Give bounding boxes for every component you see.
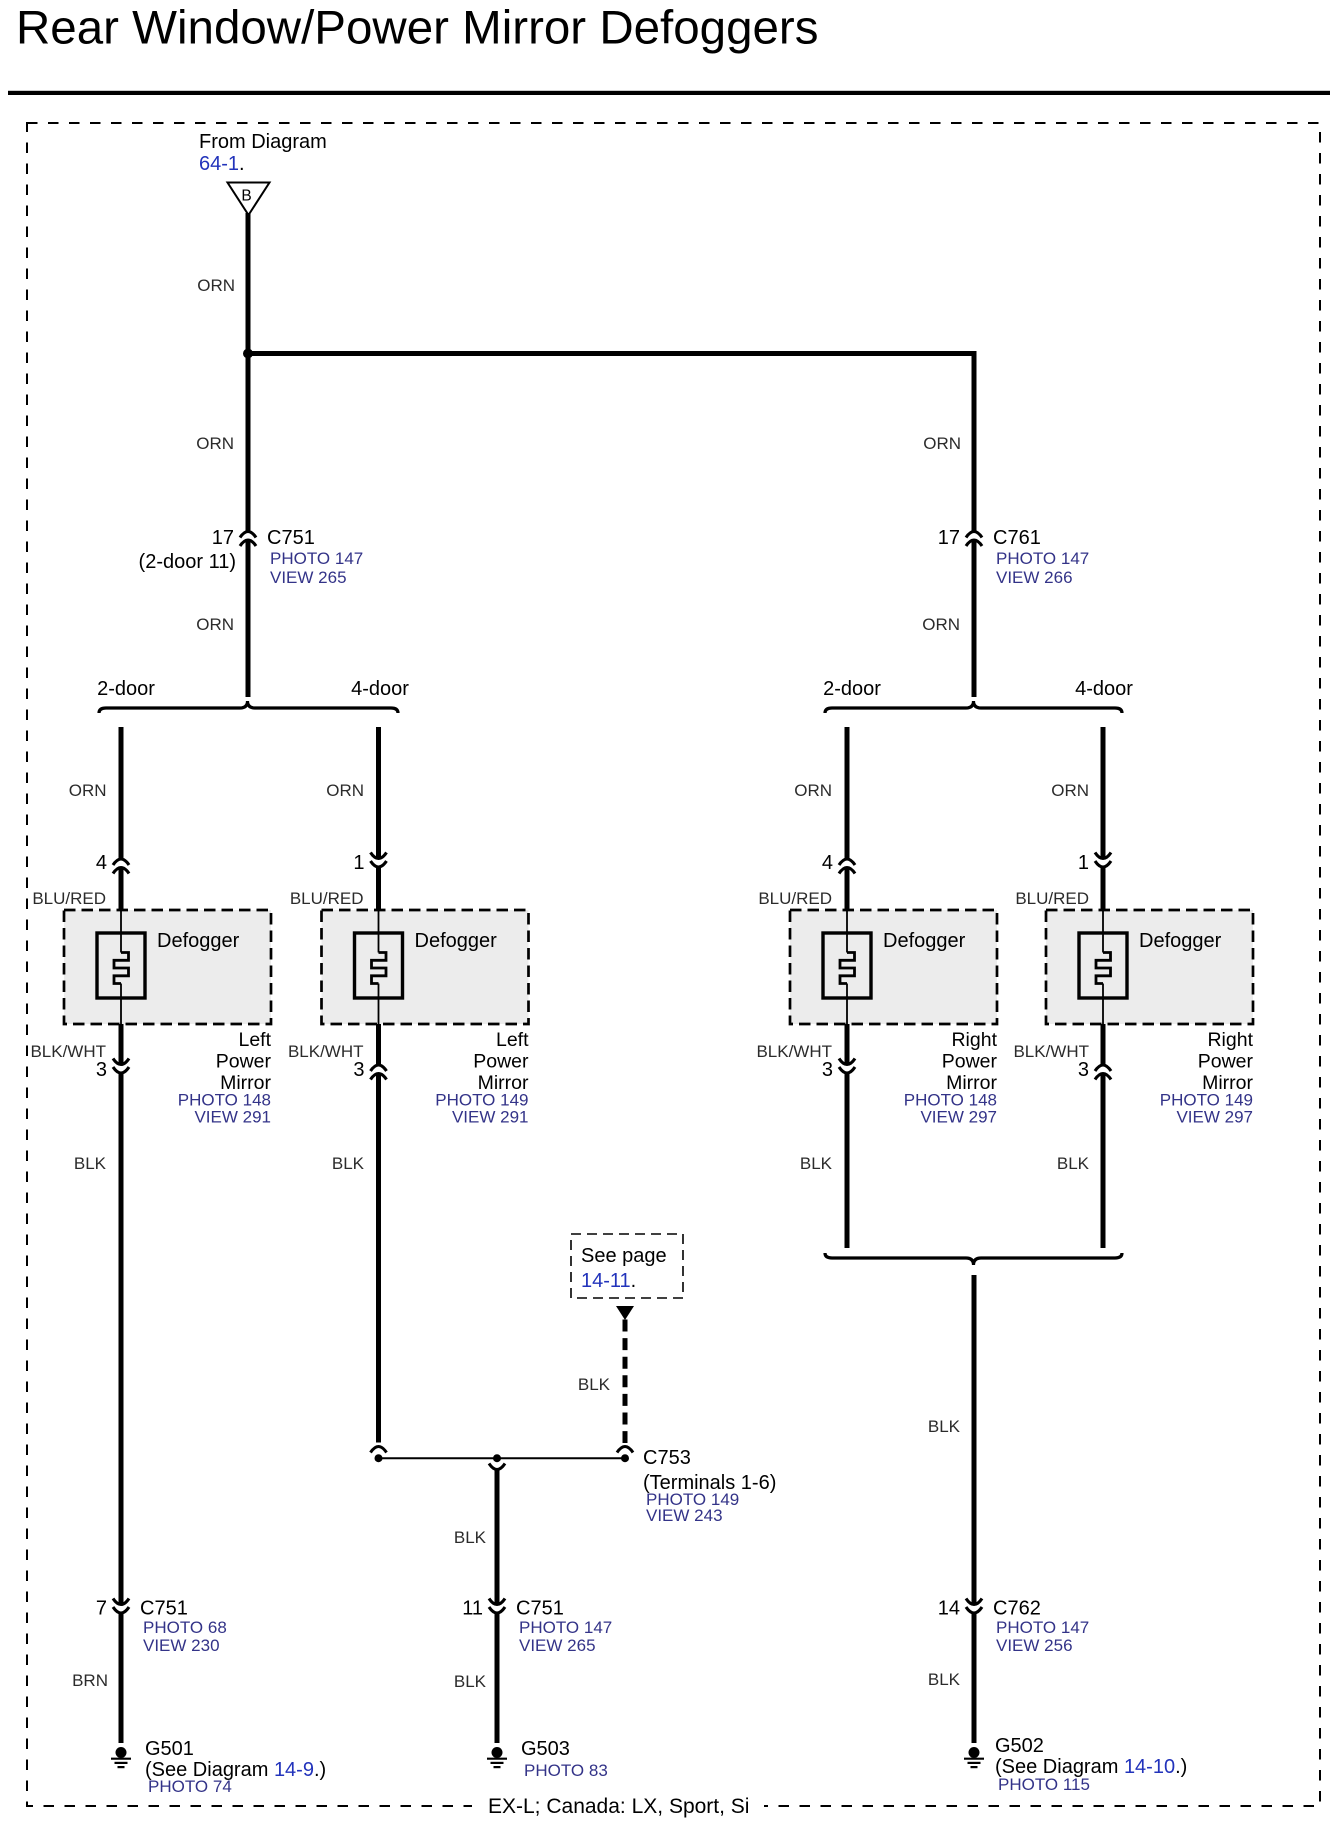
svg-text:BLK: BLK (928, 1670, 961, 1689)
svg-text:ORN: ORN (196, 434, 234, 453)
title rule (8, 91, 1330, 95)
component label Right power mirror (1198, 1029, 1254, 1094)
node junction dot (243, 349, 253, 359)
svg-text:64-1.: 64-1. (199, 153, 245, 175)
off-page connector triangle B (228, 183, 270, 216)
svg-text:G502: G502 (995, 1735, 1044, 1757)
resistor heater element box (left 2-door) (97, 933, 145, 998)
connector pin 1 symbol (left 4-door) (371, 853, 387, 868)
wire ORN horizontal to right stem (248, 354, 974, 532)
connector pin 4 symbol (left 2-door) (113, 859, 129, 874)
svg-text:PHOTO 83: PHOTO 83 (524, 1761, 608, 1780)
connector C751 pin 17 symbol (240, 532, 256, 547)
svg-text:Defogger: Defogger (415, 930, 498, 952)
wire BLK right stem below brace (972, 1275, 977, 1605)
svg-text:14: 14 (938, 1598, 960, 1620)
svg-text:VIEW 265: VIEW 265 (519, 1636, 596, 1655)
svg-text:PHOTO 115: PHOTO 115 (998, 1775, 1090, 1794)
svg-text:See page: See page (581, 1245, 667, 1267)
svg-text:1: 1 (1078, 852, 1089, 874)
wire BLK middle stem (495, 1470, 500, 1605)
svg-text:G501: G501 (145, 1738, 194, 1760)
svg-text:From Diagram: From Diagram (199, 131, 327, 153)
svg-text:3: 3 (96, 1059, 107, 1081)
connector pin 3 symbol (right 2-door) (839, 1059, 855, 1074)
connector C751 pin 7 symbol (113, 1599, 129, 1614)
svg-text:VIEW 291: VIEW 291 (194, 1108, 271, 1127)
svg-text:BLK: BLK (928, 1417, 961, 1436)
wire BLU/RED branch x=1103 (1101, 867, 1106, 910)
svg-text:VIEW 297: VIEW 297 (920, 1108, 997, 1127)
svg-text:3: 3 (822, 1059, 833, 1081)
wire ORN branch x=847 (845, 727, 850, 859)
svg-text:C751: C751 (516, 1598, 564, 1620)
svg-text:VIEW 243: VIEW 243 (646, 1506, 723, 1525)
connector C753 half (dashed wire) (617, 1447, 633, 1453)
svg-text:2-door: 2-door (97, 678, 155, 700)
wire BLK dashed to C753 (623, 1320, 628, 1444)
svg-text:PHOTO 147: PHOTO 147 (996, 1618, 1089, 1637)
svg-text:VIEW 230: VIEW 230 (143, 1636, 220, 1655)
connector C762 pin 14 symbol (966, 1599, 982, 1614)
wire BLK left 2-door down to C751 pin7 (119, 1073, 124, 1605)
svg-text:PHOTO 147: PHOTO 147 (519, 1618, 612, 1637)
svg-text:14-11.: 14-11. (581, 1270, 636, 1292)
wire ORN branch x=121 (119, 727, 124, 859)
node dot left (375, 1454, 383, 1462)
svg-text:BLU/RED: BLU/RED (758, 889, 832, 908)
wire BLK to G502 (972, 1613, 977, 1743)
caption background (472, 1797, 764, 1817)
resistor heater element box (right 4-door) (1079, 933, 1127, 998)
svg-text:PHOTO 147: PHOTO 147 (996, 549, 1089, 568)
wire thin through defogger (right 4-door) (1102, 910, 1104, 1024)
node dot right (621, 1454, 629, 1462)
brace fork left (99, 701, 398, 713)
svg-text:VIEW 291: VIEW 291 (452, 1108, 529, 1127)
wire thin through defogger (right 2-door) (846, 910, 848, 1024)
connector pin 1 symbol (right 4-door) (1095, 853, 1111, 868)
svg-text:BLK/WHT: BLK/WHT (756, 1042, 832, 1061)
svg-text:C753: C753 (643, 1447, 691, 1469)
svg-text:BLK: BLK (1057, 1154, 1090, 1173)
svg-text:Power: Power (942, 1051, 998, 1073)
svg-text:VIEW 256: VIEW 256 (996, 1636, 1073, 1655)
svg-text:PHOTO 74: PHOTO 74 (148, 1777, 232, 1796)
svg-text:7: 7 (96, 1598, 107, 1620)
wire ORN stem from triangle to junction (246, 213, 251, 354)
svg-text:EX-L; Canada: LX, Sport, Si: EX-L; Canada: LX, Sport, Si (488, 1795, 749, 1818)
wire BLK right 4-door down to brace (1101, 1074, 1106, 1249)
connector pin 4 symbol (right 2-door) (839, 859, 855, 874)
svg-text:C762: C762 (993, 1598, 1041, 1620)
connector pin 3 symbol (right 4-door) (1095, 1065, 1111, 1080)
wire BLK/WHT branch x=847 (845, 1024, 850, 1065)
svg-text:ORN: ORN (922, 615, 960, 634)
svg-text:ORN: ORN (1051, 781, 1089, 800)
G503 ground symbol (487, 1747, 507, 1767)
svg-text:BLU/RED: BLU/RED (290, 889, 364, 908)
svg-text:Right: Right (951, 1029, 997, 1051)
svg-text:ORN: ORN (197, 276, 235, 295)
brace merge right (825, 1253, 1122, 1265)
svg-text:1: 1 (353, 852, 364, 874)
resistor heater element box (left 4-door) (355, 933, 403, 998)
G501 ground symbol (111, 1747, 131, 1767)
svg-text:BLU/RED: BLU/RED (1015, 889, 1089, 908)
wire ORN branch x=1103 (1101, 727, 1106, 859)
G502 ground symbol (964, 1747, 984, 1767)
resistor heater meander (right 2-door) (840, 953, 855, 984)
svg-text:Right: Right (1207, 1029, 1253, 1051)
connector C753 half (middle stem) (489, 1464, 505, 1470)
svg-text:17: 17 (938, 527, 960, 549)
svg-text:VIEW 265: VIEW 265 (270, 568, 347, 587)
component label Left power mirror (473, 1029, 529, 1094)
connector C751 pin 11 symbol (489, 1599, 505, 1614)
svg-text:4: 4 (96, 852, 107, 874)
resistor heater meander (left 2-door) (114, 953, 129, 984)
svg-text:Power: Power (1198, 1051, 1254, 1073)
wire BLU/RED branch x=847 (845, 868, 850, 911)
wire ORN branch x=378.5 (376, 727, 381, 859)
wire thin through defogger (left 2-door) (120, 910, 122, 1024)
svg-text:C761: C761 (993, 527, 1041, 549)
wire thin through defogger (left 4-door) (378, 910, 380, 1024)
svg-text:Left: Left (238, 1029, 271, 1051)
svg-text:VIEW 266: VIEW 266 (996, 568, 1073, 587)
svg-text:Power: Power (216, 1051, 272, 1073)
svg-text:BLK: BLK (454, 1672, 487, 1691)
svg-text:VIEW 297: VIEW 297 (1176, 1108, 1253, 1127)
see-page dashed box (571, 1234, 683, 1298)
defogger unit dashed box (left 2-door) (64, 910, 271, 1024)
svg-text:ORN: ORN (326, 781, 364, 800)
svg-text:4-door: 4-door (351, 678, 409, 700)
defogger unit dashed box (right 4-door) (1046, 910, 1253, 1024)
resistor heater element box (right 2-door) (823, 933, 871, 998)
svg-text:Rear Window/Power Mirror Defog: Rear Window/Power Mirror Defoggers (16, 2, 818, 55)
svg-text:ORN: ORN (196, 615, 234, 634)
svg-text:4-door: 4-door (1075, 678, 1133, 700)
svg-text:Left: Left (496, 1029, 529, 1051)
svg-text:BLK: BLK (74, 1154, 107, 1173)
svg-text:BLK: BLK (454, 1528, 487, 1547)
svg-text:Defogger: Defogger (157, 930, 240, 952)
svg-text:BLK/WHT: BLK/WHT (30, 1042, 106, 1061)
component label Left power mirror (216, 1029, 272, 1094)
svg-text:3: 3 (1078, 1059, 1089, 1081)
wire BLK to G503 (495, 1613, 500, 1743)
svg-text:BLK/WHT: BLK/WHT (288, 1042, 364, 1061)
svg-text:2-door: 2-door (823, 678, 881, 700)
component label Right power mirror (942, 1029, 998, 1094)
connector C761 pin 17 symbol (966, 532, 982, 547)
resistor heater meander (left 4-door) (372, 953, 387, 984)
svg-text:B: B (241, 188, 251, 205)
svg-text:PHOTO 68: PHOTO 68 (143, 1618, 227, 1637)
svg-text:C751: C751 (267, 527, 315, 549)
defogger unit dashed box (right 2-door) (790, 910, 997, 1024)
svg-text:C751: C751 (140, 1598, 188, 1620)
defogger unit dashed box (left 4-door) (322, 910, 529, 1024)
arrow triangle to C753 (616, 1306, 634, 1320)
svg-text:ORN: ORN (69, 781, 107, 800)
svg-text:(2-door 11): (2-door 11) (139, 551, 236, 573)
svg-text:17: 17 (212, 527, 234, 549)
wire BLU/RED branch x=121 (119, 868, 124, 911)
wire BLK right 2-door down to brace (845, 1073, 850, 1248)
connector C753 half (left 4-door wire) (371, 1447, 387, 1453)
wire BLK/WHT branch x=378.5 (376, 1024, 381, 1065)
brace fork right (825, 701, 1122, 713)
svg-text:G503: G503 (521, 1738, 570, 1760)
wire BLU/RED branch x=378.5 (376, 867, 381, 910)
svg-text:BRN: BRN (72, 1671, 108, 1690)
connector pin 3 symbol (left 2-door) (113, 1059, 129, 1074)
svg-text:4: 4 (822, 852, 833, 874)
svg-text:BLU/RED: BLU/RED (32, 889, 106, 908)
wire BRN to G501 (119, 1613, 124, 1743)
svg-text:11: 11 (462, 1598, 483, 1620)
svg-text:3: 3 (353, 1059, 364, 1081)
node dot middle (493, 1454, 501, 1462)
wire BLK/WHT branch x=1103 (1101, 1024, 1106, 1065)
svg-text:BLK: BLK (332, 1154, 365, 1173)
svg-text:Power: Power (473, 1051, 529, 1073)
node C753 terminal line (379, 1457, 626, 1459)
svg-text:ORN: ORN (794, 781, 832, 800)
svg-text:Defogger: Defogger (883, 930, 966, 952)
wire ORN below C761 (972, 540, 977, 697)
wire BLK left 4-door down to C753 (376, 1074, 381, 1443)
svg-text:ORN: ORN (923, 434, 961, 453)
svg-text:PHOTO 147: PHOTO 147 (270, 549, 363, 568)
connector pin 3 symbol (left 4-door) (371, 1065, 387, 1080)
wire ORN below C751 (246, 540, 251, 697)
wire BLK/WHT branch x=121 (119, 1024, 124, 1065)
svg-text:BLK: BLK (800, 1154, 833, 1173)
svg-text:Defogger: Defogger (1139, 930, 1222, 952)
resistor heater meander (right 4-door) (1096, 953, 1111, 984)
wire ORN left stem to C751 (246, 354, 251, 532)
svg-text:BLK: BLK (578, 1375, 611, 1394)
